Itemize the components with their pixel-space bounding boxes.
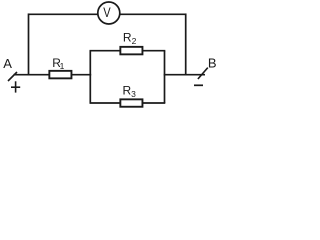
wire: top branch right of R2 [142, 50, 165, 52]
wire: outer loop right vertical [185, 13, 187, 75]
wire: parallel block right vertical [164, 51, 166, 103]
voltmeter V1 [98, 2, 120, 24]
svg-text:R2: R2 [123, 31, 137, 46]
wire: parallel block to terminal B [164, 74, 205, 76]
svg-text:B: B [208, 56, 217, 71]
wire: bottom branch left of R3 [90, 102, 122, 104]
wire: bottom branch right of R3 [142, 102, 165, 104]
svg-text:A: A [3, 56, 12, 71]
svg-text:V: V [103, 4, 111, 20]
minus sign [194, 84, 203, 86]
svg-text:R3: R3 [123, 84, 137, 99]
wire: outer loop top [29, 13, 186, 15]
resistor R2 [120, 47, 142, 55]
wire: top branch left of R2 [90, 50, 122, 52]
wire: outer loop left vertical [28, 13, 30, 75]
wire: parallel block left vertical [89, 51, 91, 103]
wire: R1 to parallel block [71, 74, 91, 76]
wire: terminal A to R1 [14, 74, 51, 76]
resistor R3 [120, 99, 142, 106]
svg-text:R1: R1 [52, 56, 64, 71]
terminal B slash [198, 68, 208, 79]
plus sign [11, 81, 20, 92]
resistor R1 [49, 71, 71, 79]
terminal A slash [8, 72, 17, 81]
